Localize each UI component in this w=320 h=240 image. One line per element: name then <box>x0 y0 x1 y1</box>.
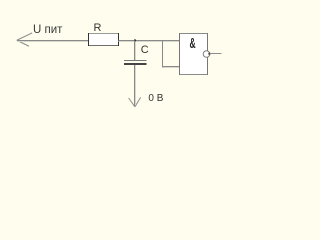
svg-text:C: C <box>141 44 149 56</box>
NAND gate U1 body <box>180 33 208 75</box>
svg-text:U пит: U пит <box>33 24 63 36</box>
wire: gate output <box>210 53 222 55</box>
wire: capacitor C bottom plate to ground <box>134 65 136 107</box>
wire: gate lower input horizontal <box>163 66 180 68</box>
wire: input tap vertical (gate lower input) <box>162 40 164 68</box>
gate inversion bubble (output) <box>203 51 210 58</box>
wire: node down to capacitor C top plate <box>134 41 136 61</box>
wire: supply arrow to resistor R <box>17 40 89 42</box>
capacitor C plates <box>124 61 147 65</box>
svg-text:&: & <box>189 36 195 52</box>
power terminal arrow (supply) <box>17 33 32 46</box>
ground arrow (0 V) <box>129 97 141 106</box>
output junction nub <box>208 53 210 55</box>
resistor R body <box>89 33 119 46</box>
svg-text:R: R <box>94 22 102 34</box>
svg-text:0 В: 0 В <box>148 93 163 104</box>
node junction (wire to capacitor C) <box>134 39 136 41</box>
wire: resistor R to gate input <box>119 40 180 42</box>
